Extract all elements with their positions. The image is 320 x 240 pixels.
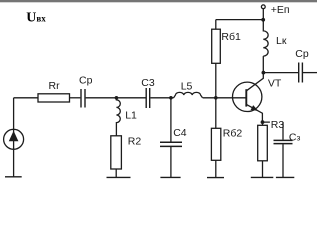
svg-text:+Eп: +Eп xyxy=(271,4,290,16)
svg-text:C3: C3 xyxy=(141,77,155,89)
svg-text:Rб2: Rб2 xyxy=(223,127,243,139)
svg-text:R2: R2 xyxy=(128,135,142,147)
svg-text:Cp: Cp xyxy=(295,48,309,60)
svg-text:L5: L5 xyxy=(181,80,193,92)
svg-text:Uвх: Uвх xyxy=(26,10,46,25)
svg-text:R3: R3 xyxy=(271,119,285,131)
svg-text:L1: L1 xyxy=(125,110,137,122)
svg-text:Rб1: Rб1 xyxy=(221,31,241,43)
svg-text:VT: VT xyxy=(268,78,282,90)
svg-text:Cp: Cp xyxy=(79,74,93,86)
svg-text:Cз: Cз xyxy=(289,132,301,144)
svg-text:Rr: Rr xyxy=(49,80,61,92)
svg-text:C4: C4 xyxy=(173,127,187,139)
svg-text:Lк: Lк xyxy=(276,35,287,47)
